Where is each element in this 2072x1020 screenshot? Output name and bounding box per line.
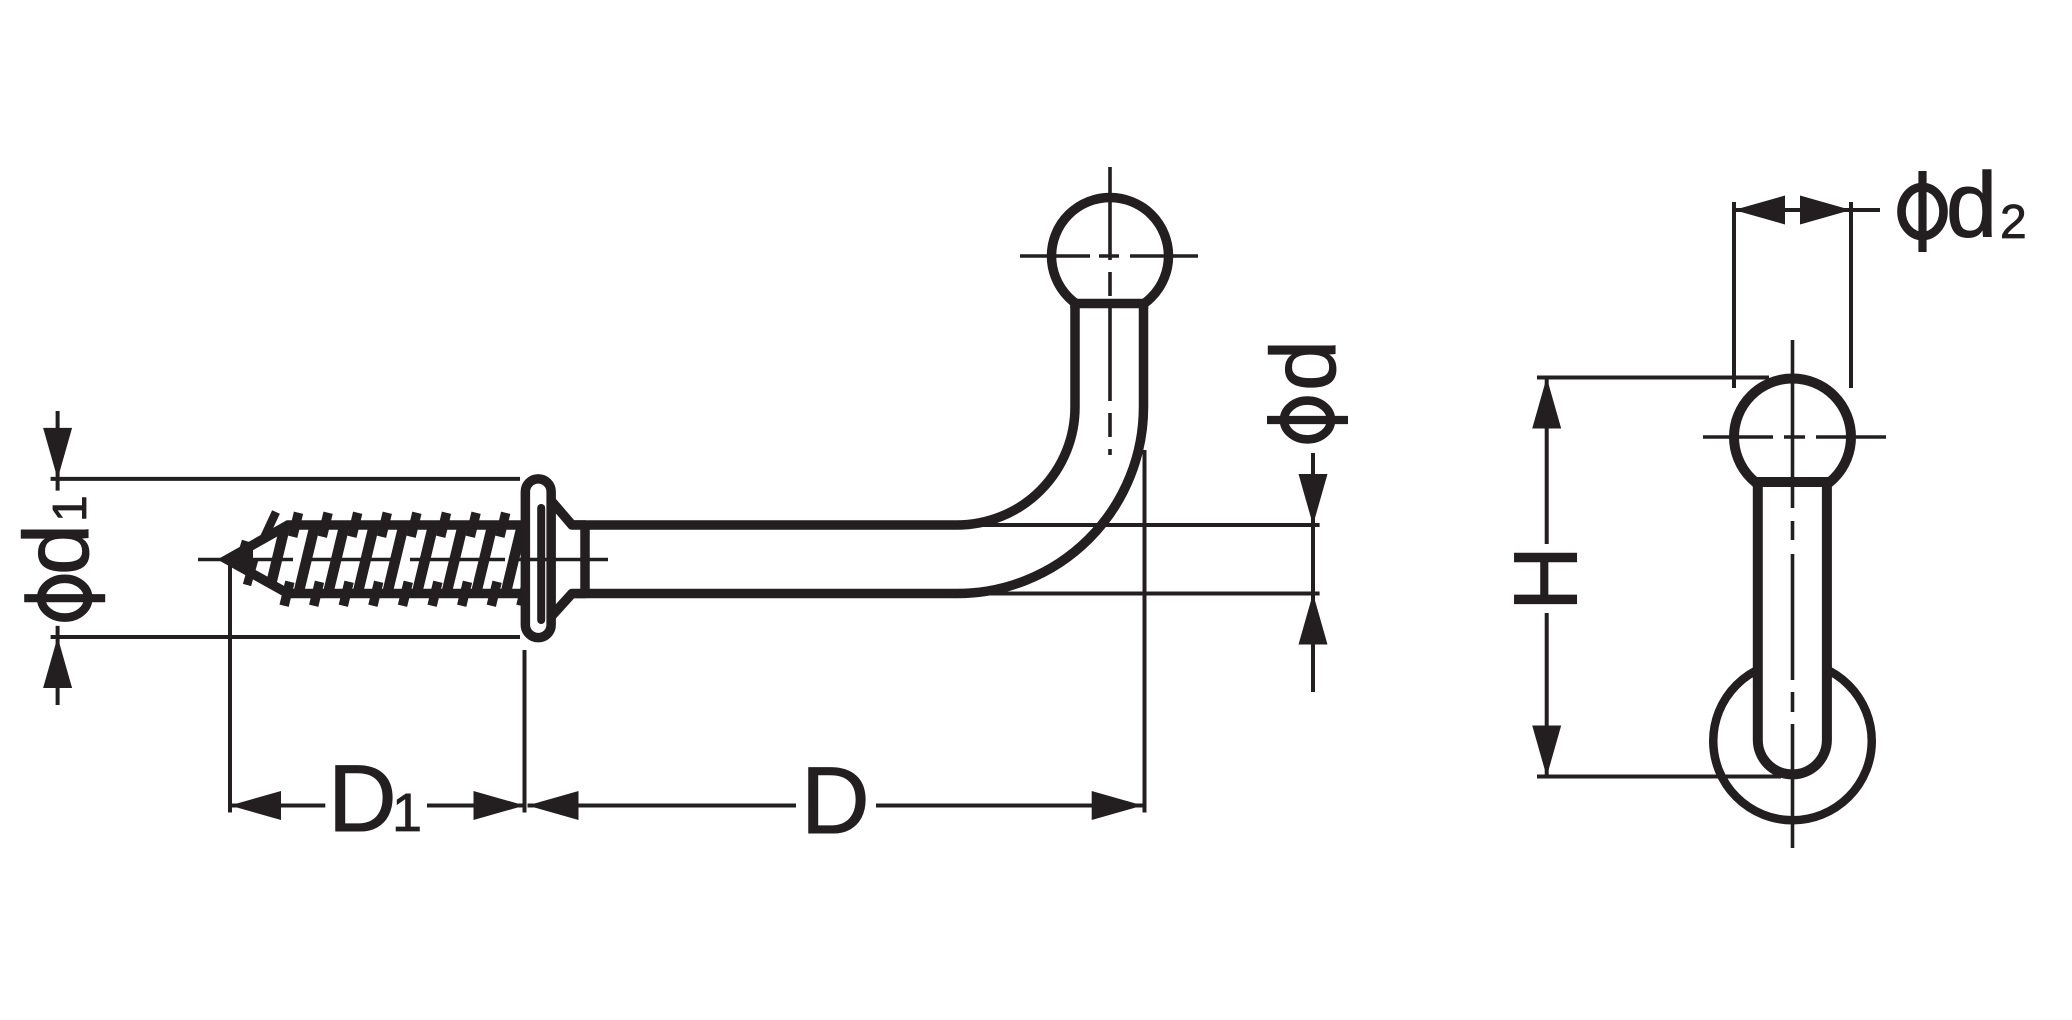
shank outline (front view): [1758, 482, 1827, 774]
dimension line phi-d1 bottom with arrow: [56, 626, 60, 705]
extension line phi-d2 right: [1849, 202, 1853, 388]
dimension line D1: [230, 804, 325, 808]
svg-text:H: H: [1497, 546, 1597, 611]
flange face edge line: [537, 508, 545, 620]
svg-text:D: D: [328, 746, 397, 852]
svg-text:1: 1: [392, 783, 422, 843]
dimension line phi-d2 with arrows: [1734, 208, 1880, 212]
label phi-d: [1284, 401, 1331, 440]
ball neck joint line (side view): [1070, 299, 1148, 309]
screw thread body outline: [227, 525, 540, 594]
extension line H bottom: [1537, 775, 1781, 779]
extension line phi-d bottom: [947, 592, 1320, 596]
svg-text:d: d: [1946, 154, 1997, 256]
screw thread crest marks (top): [263, 512, 276, 540]
label phi-d1: [41, 579, 88, 618]
flange disk (front view, bottom circle): [1713, 662, 1872, 821]
dimension line phi-d with arrows: [1311, 453, 1315, 692]
ball end (front view): [1734, 379, 1851, 496]
ball horizontal centerline (front view): [1703, 435, 1886, 439]
extension line at hook outer edge: [1143, 450, 1147, 813]
hook shank tube fill over ball: [1075, 304, 1144, 408]
ball neck joint line (front view): [1753, 477, 1832, 487]
hook shank tube (side view): white body fill: [552, 304, 1144, 594]
extension line at flange: [523, 650, 527, 813]
dimension line phi-d1 top with arrow: [56, 411, 60, 491]
extension line phi-d1 top: [51, 477, 520, 481]
hook shank outer edge (bottom edge, outer bend, arm right edge): [552, 304, 1144, 594]
shank (front view): white fill: [1758, 482, 1827, 774]
screw tip solid wedge: [227, 545, 253, 574]
svg-text:D: D: [801, 748, 870, 854]
extension line phi-d1 bottom: [51, 635, 520, 639]
screw axis centerline: [198, 558, 608, 562]
screw thread crest marks (bottom): [284, 582, 290, 606]
dimension line D: [528, 804, 797, 808]
label phi-d2: [1902, 187, 1944, 236]
svg-text:2: 2: [2000, 196, 2027, 249]
dimension line H bottom with arrow: [1545, 613, 1549, 777]
extension line at screw tip: [228, 562, 232, 813]
extension line H top: [1537, 376, 1769, 380]
svg-text:d: d: [6, 524, 108, 575]
svg-text:d: d: [1253, 340, 1355, 391]
ball end (side view): [1052, 198, 1169, 315]
svg-text:1: 1: [44, 495, 97, 522]
ball vertical centerline (side view): [1108, 167, 1112, 455]
hook shank inner edge (top edge, inner bend, arm left edge): [552, 304, 1075, 526]
ball horizontal centerline (side view): [1020, 254, 1198, 258]
flange disk (stadium outline): [525, 479, 551, 638]
extension line phi-d2 left: [1732, 202, 1736, 388]
screw thread flank lines: [265, 511, 525, 608]
vertical centerline (front view): [1791, 340, 1795, 848]
flange transition cone to shank: [548, 497, 585, 620]
extension line phi-d top: [950, 523, 1320, 527]
dimension line H top with arrow: [1545, 378, 1549, 545]
